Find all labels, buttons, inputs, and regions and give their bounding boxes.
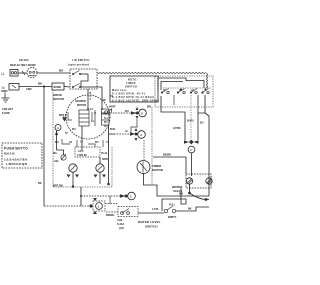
node 3 circle bbox=[139, 109, 147, 117]
timer contacts guide bbox=[163, 87, 211, 89]
timer internal bus inner bbox=[161, 82, 183, 91]
wire node1 ext bbox=[105, 203, 117, 205]
neutral wire drop bbox=[43, 87, 45, 206]
arrow into node 2 bbox=[120, 194, 125, 197]
node 1 arrow up bbox=[93, 198, 97, 201]
connector block TB1 bbox=[52, 83, 64, 90]
wire winding down bbox=[81, 126, 83, 150]
wire valve link arc bbox=[190, 193, 207, 200]
drive motor box right edge bbox=[111, 147, 113, 187]
wire N bus bbox=[19, 86, 52, 88]
svg-text:PUSH BUTTO: PUSH BUTTO bbox=[4, 147, 28, 151]
water valve label bbox=[172, 185, 183, 193]
wire motor internal bus bbox=[57, 150, 64, 155]
timer contact S3 bbox=[190, 89, 197, 94]
node 1 dashed box bbox=[93, 201, 105, 211]
wire L1 to breaker bbox=[18, 72, 27, 74]
svg-text:S-1: S-1 bbox=[104, 117, 108, 120]
svg-text:AGI: AGI bbox=[54, 160, 59, 163]
svg-text:BU: BU bbox=[200, 122, 204, 125]
water valve coil cold bbox=[186, 178, 192, 184]
wire to node 3 dashed bbox=[110, 112, 136, 114]
label BU vertical bbox=[90, 92, 92, 101]
svg-text:MA: MA bbox=[53, 152, 57, 155]
wire node3 loop to node4 bbox=[131, 119, 137, 133]
svg-text:4A: 4A bbox=[69, 141, 72, 144]
svg-text:S-4CA: S-4CA bbox=[117, 223, 124, 226]
svg-text:MOTOR: MOTOR bbox=[53, 97, 65, 101]
svg-text:MOTOR: MOTOR bbox=[152, 168, 164, 172]
wire to node 2 bbox=[81, 195, 123, 197]
svg-text:BK/BN: BK/BN bbox=[163, 154, 171, 157]
timer contact S2 bbox=[177, 89, 185, 94]
water valve coil hot bbox=[206, 178, 212, 184]
timer contact S1 bbox=[161, 89, 169, 94]
svg-text:1.5TA: 1.5TA bbox=[152, 208, 159, 211]
wire timer left branch bbox=[161, 96, 185, 140]
svg-text:BU/L: BU/L bbox=[110, 128, 116, 131]
wire right main drop bbox=[198, 95, 209, 196]
svg-text:SWITCH: SWITCH bbox=[145, 225, 158, 229]
lid switch pole 1 bbox=[72, 71, 88, 76]
svg-text:1:2:3:4:5:6:7:8:9: 1:2:3:4:5:6:7:8:9 bbox=[4, 158, 27, 162]
svg-text:GY/BK: GY/BK bbox=[173, 127, 181, 130]
wire right branch bbox=[197, 95, 199, 140]
motor switch contact main bbox=[61, 154, 66, 160]
tick bbox=[109, 196, 111, 204]
lid switch S1 label bbox=[68, 59, 90, 67]
node 3 arrows bbox=[136, 107, 139, 119]
pressure switch wire right bbox=[138, 212, 164, 214]
shield squiggle wire to timer bbox=[97, 72, 206, 73]
lid switch internal link bbox=[81, 74, 88, 87]
svg-text:GRN: GRN bbox=[26, 88, 32, 91]
pressure contact box bbox=[118, 207, 138, 217]
label block V13L bbox=[117, 219, 124, 230]
junction drop bbox=[80, 195, 82, 197]
junction node 2 bbox=[125, 195, 128, 198]
svg-text:BU: BU bbox=[104, 121, 108, 124]
inline contact bbox=[22, 71, 25, 75]
svg-text:L:M:N:O:P:Q:R: L:M:N:O:P:Q:R bbox=[6, 162, 28, 166]
shield squiggle drop bbox=[206, 73, 207, 88]
svg-text:GRD: GRD bbox=[1, 89, 8, 93]
wire contact left down bbox=[72, 172, 74, 187]
wire timer motor down bbox=[144, 174, 210, 197]
wire timer left drop bbox=[153, 157, 186, 174]
junction node 4 bbox=[135, 133, 138, 136]
pressure switch wire bbox=[106, 211, 118, 213]
svg-text:S-4 BU2 AGITATE, DRN-SPIN4: S-4 BU2 AGITATE, DRN-SPIN4 bbox=[112, 100, 160, 103]
wire dotted mid drop bbox=[190, 95, 192, 139]
svg-text:4-PC: 4-PC bbox=[78, 150, 84, 153]
junction below node A bbox=[55, 133, 58, 136]
junction arrows node B bbox=[184, 140, 199, 145]
wire valve cold down bbox=[189, 185, 191, 193]
wire motor feed to node 4 bbox=[109, 133, 115, 135]
wht stub bbox=[111, 109, 113, 113]
timer contact S4 bbox=[201, 89, 209, 94]
node 2 circle bbox=[128, 192, 136, 200]
node N terminal bbox=[2, 84, 19, 91]
wire lid switch to motor feed bbox=[95, 87, 102, 109]
wire block to contact bbox=[99, 157, 101, 164]
wire arc to bus bbox=[206, 199, 209, 201]
motor switch contact left bbox=[69, 164, 77, 172]
feed dot a bbox=[87, 108, 89, 110]
motor switch contact right bbox=[96, 164, 104, 172]
svg-text:120 VAC: 120 VAC bbox=[19, 59, 29, 62]
svg-text:BU/YL: BU/YL bbox=[187, 120, 195, 123]
svg-text:(open position): (open position) bbox=[68, 64, 89, 67]
wire node4 down to timer motor bbox=[143, 140, 145, 160]
note legend box bbox=[110, 76, 160, 103]
junction N / neutral drop bbox=[43, 85, 45, 87]
timer contact stubs bbox=[173, 95, 175, 105]
svg-text:BLK 3-16: BLK 3-16 bbox=[4, 153, 15, 156]
svg-text:BK: BK bbox=[188, 208, 192, 211]
motor label inside bbox=[75, 100, 86, 107]
inner lead dot bbox=[94, 112, 96, 114]
label block S-1 BU bbox=[104, 117, 108, 128]
empty wire bbox=[176, 207, 209, 211]
ground GRD bbox=[1, 89, 10, 102]
svg-text:MTR SW: MTR SW bbox=[53, 185, 64, 188]
svg-text:MOTOR: MOTOR bbox=[77, 104, 86, 107]
contact left arrows bbox=[67, 175, 80, 178]
selector switch box bbox=[2, 143, 42, 168]
timer internal bus outer bbox=[158, 78, 204, 90]
svg-text:AGI/SPIN: AGI/SPIN bbox=[75, 100, 86, 103]
svg-text:BU: BU bbox=[95, 141, 99, 144]
junction dot left bbox=[72, 185, 75, 188]
junction valve bbox=[188, 192, 191, 195]
timer motor TM bbox=[137, 161, 150, 174]
feed dot b bbox=[101, 108, 103, 110]
drive motor box bottom edge bbox=[53, 186, 112, 188]
svg-text:LID SWITCH: LID SWITCH bbox=[72, 59, 90, 62]
lid switch pole 2 bbox=[72, 84, 95, 89]
label cabinet ground bbox=[2, 108, 14, 115]
svg-text:E GRD: E GRD bbox=[2, 112, 10, 115]
wire node A down bbox=[56, 131, 58, 151]
water valve box bbox=[186, 174, 211, 188]
contact right arrows bbox=[94, 175, 107, 178]
svg-text:WATER LEVEL: WATER LEVEL bbox=[138, 220, 161, 224]
junction node 1 bbox=[89, 204, 92, 207]
svg-text:V13L: V13L bbox=[117, 219, 123, 222]
wire jog 2 bbox=[76, 140, 78, 147]
wire motor sw drop 1 bbox=[80, 187, 82, 206]
node A circle bbox=[55, 125, 61, 131]
drive motor label bbox=[53, 93, 65, 101]
tick inner a bbox=[91, 112, 93, 120]
full bridge wire bbox=[162, 188, 186, 211]
svg-text:SPIN: SPIN bbox=[102, 158, 108, 161]
switch contact on node3 wire bbox=[104, 109, 112, 114]
svg-text:BU: BU bbox=[125, 110, 129, 113]
wire contact right down bbox=[99, 172, 101, 184]
svg-text:EMPTY: EMPTY bbox=[168, 216, 177, 219]
svg-text:BU: BU bbox=[55, 141, 59, 144]
water level switch label bbox=[138, 220, 161, 229]
svg-text:CAB HGT: CAB HGT bbox=[2, 108, 14, 111]
wire protector down bbox=[108, 125, 110, 183]
svg-text:WHT: WHT bbox=[109, 105, 116, 109]
svg-text:BU/BK: BU/BK bbox=[54, 86, 62, 89]
svg-text:BR/WH: BR/WH bbox=[106, 214, 114, 217]
junction node 3 bbox=[136, 112, 139, 115]
svg-text:L1: L1 bbox=[1, 72, 5, 76]
motor protector bbox=[102, 109, 110, 125]
pressure switch contacts bbox=[164, 206, 175, 213]
timer box T1 bbox=[155, 76, 213, 107]
node 1 circle bbox=[96, 203, 103, 210]
node 4 arrows bbox=[135, 128, 138, 141]
power rating note text bbox=[10, 59, 36, 67]
node L1 terminal bbox=[1, 70, 18, 77]
svg-text:(off): (off) bbox=[119, 227, 124, 230]
motor winding bbox=[79, 110, 89, 126]
node 1 arrow down bbox=[93, 211, 97, 214]
wire node B to water valve bbox=[191, 153, 193, 176]
drive motor circle bbox=[66, 95, 110, 139]
tick inner b bbox=[68, 112, 72, 120]
svg-text:40-41: 40-41 bbox=[101, 152, 108, 155]
circuit breaker CB1 bbox=[27, 68, 37, 78]
wire jog 1 bbox=[62, 139, 70, 144]
svg-text:1-800-8C: 1-800-8C bbox=[77, 154, 87, 157]
svg-text:A: A bbox=[57, 127, 59, 130]
wire lid switch tap down bbox=[87, 89, 89, 110]
arrow into node 4 bbox=[130, 132, 135, 135]
lid switch S1 box bbox=[70, 69, 97, 89]
svg-text:SWITCH: SWITCH bbox=[125, 86, 137, 89]
inner lead bbox=[94, 110, 96, 126]
winding triangle bbox=[62, 118, 67, 122]
arrow into node 3 bbox=[131, 111, 136, 114]
neutral bottom wire bbox=[44, 205, 89, 207]
wire L1 bus to lid switch bbox=[37, 72, 70, 74]
svg-text:BK: BK bbox=[38, 182, 42, 185]
wire jog 3 bbox=[88, 144, 95, 147]
drive motor box left edge bbox=[52, 90, 54, 187]
junction right bus bbox=[205, 198, 208, 201]
wire legend to node 3 bbox=[101, 112, 110, 114]
svg-text:BU: BU bbox=[72, 128, 76, 131]
wire jog 4 bbox=[102, 140, 104, 147]
motor switch block bbox=[75, 147, 100, 157]
svg-text:60HZ AC ONLY KM-BK: 60HZ AC ONLY KM-BK bbox=[10, 64, 36, 67]
wire TB1 to lid switch lower pole bbox=[64, 86, 70, 89]
timer motor label bbox=[152, 164, 164, 172]
node 4 circle bbox=[138, 131, 146, 139]
junction dot right bbox=[107, 183, 110, 186]
timer assembly left edge bbox=[151, 107, 153, 185]
node B circle bbox=[188, 146, 195, 153]
